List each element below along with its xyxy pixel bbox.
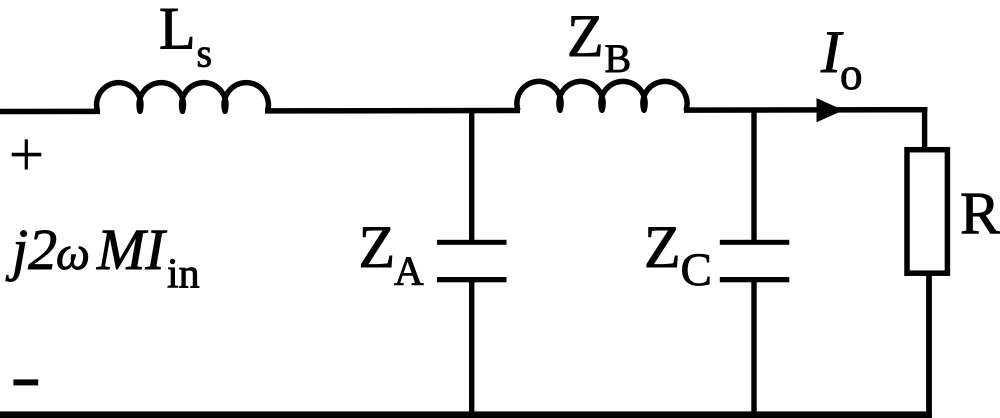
wire below resistor [926, 273, 932, 418]
wire right corner down to resistor [922, 107, 927, 150]
svg-text:A: A [394, 247, 424, 293]
capacitor ZA bottom plate [437, 277, 507, 282]
svg-text:L: L [159, 0, 196, 62]
svg-text:o: o [840, 49, 863, 99]
inductor Ls [97, 83, 269, 112]
wire top-right segment [684, 107, 927, 113]
node C stub: wire from top wire down to ZC [751, 109, 756, 241]
label j2wMIin (source voltage) [5, 217, 200, 298]
inductor ZB [517, 81, 687, 110]
capacitor ZC bottom plate [720, 277, 790, 282]
svg-text:s: s [197, 30, 213, 75]
label Io [820, 19, 863, 99]
svg-text:in: in [167, 252, 200, 298]
svg-text:Z: Z [359, 214, 396, 280]
svg-text:ω: ω [56, 227, 90, 280]
label Ls [159, 0, 212, 75]
wire top-left segment [0, 109, 100, 115]
label ZB [567, 3, 631, 81]
wire ZC lower stub [751, 281, 756, 414]
resistor R [907, 150, 947, 274]
svg-text:MI: MI [96, 217, 167, 282]
node A stub: wire from top wire down to ZA [469, 109, 474, 241]
label ZA [359, 214, 425, 293]
svg-text:B: B [605, 36, 632, 81]
label ZC [644, 214, 712, 296]
minus terminal [13, 379, 38, 385]
svg-text:Z: Z [567, 3, 604, 69]
svg-text:C: C [681, 244, 712, 296]
wire bottom rail [0, 411, 932, 418]
capacitor ZA top plate [437, 240, 507, 245]
wire top-middle segment [265, 108, 520, 114]
plus terminal [12, 139, 42, 169]
svg-text:j2: j2 [5, 217, 57, 282]
wire ZA lower stub [469, 281, 474, 414]
svg-text:Z: Z [644, 214, 681, 280]
arrow Io [817, 98, 844, 122]
svg-text:R: R [960, 180, 1000, 246]
capacitor ZC top plate [720, 240, 790, 245]
